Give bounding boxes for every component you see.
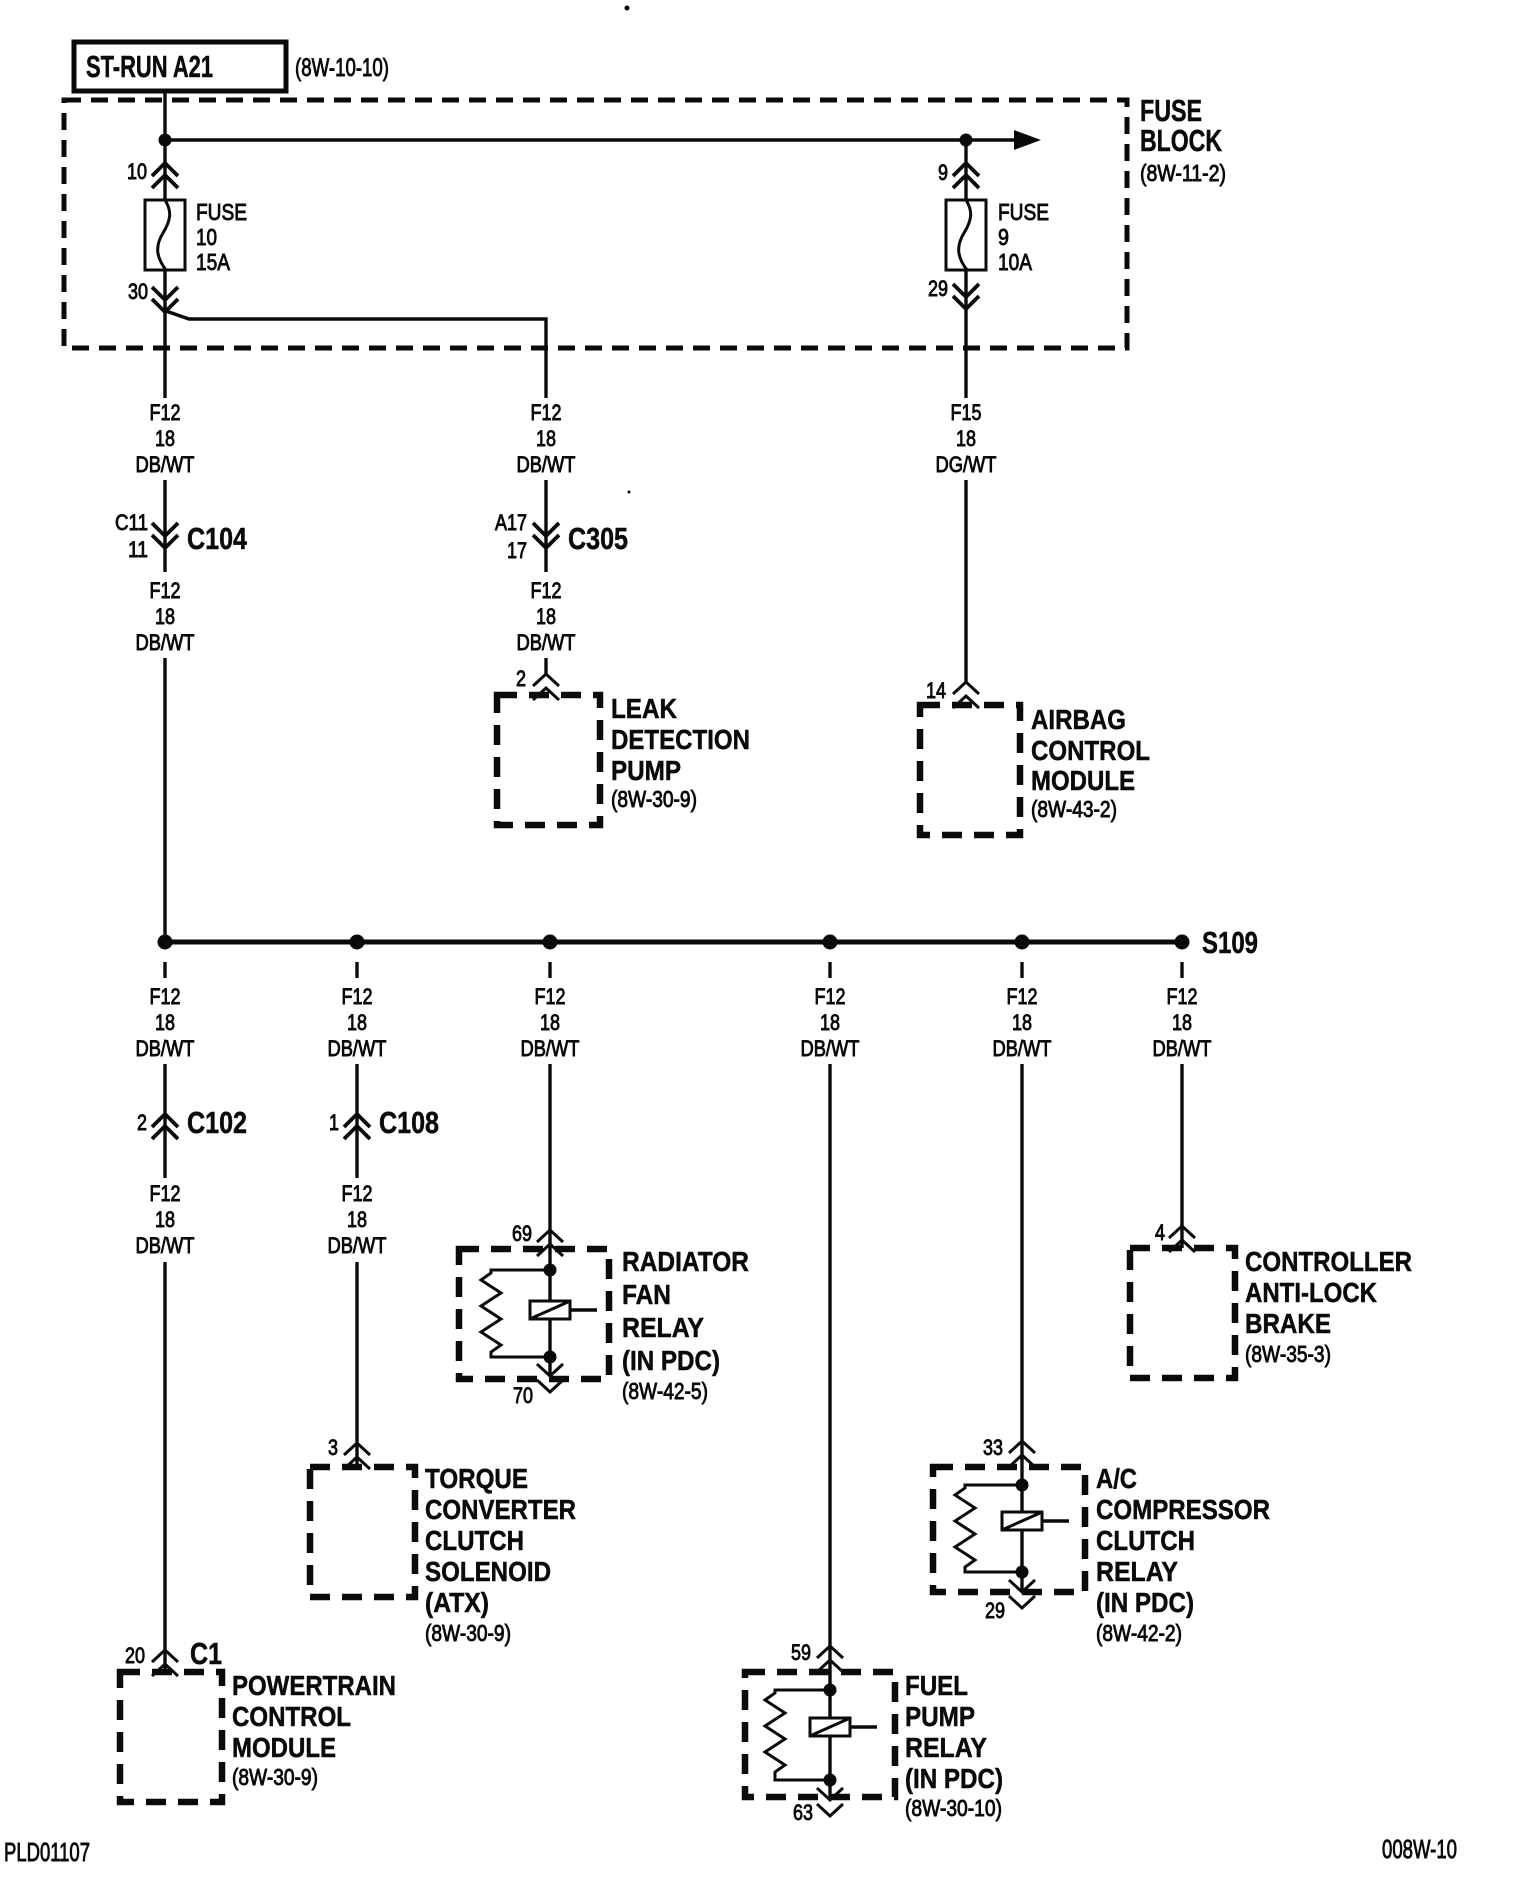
wire stub below splice node 6 [1180,962,1183,978]
svg-text:10: 10 [127,159,147,184]
junction node above fuse 9 [960,134,973,147]
fuse 10 15A [145,199,247,275]
wire node to fuse 10 [163,146,166,200]
svg-text:(8W-11-2): (8W-11-2) [1140,160,1226,186]
splice junction node 3 [543,935,558,950]
svg-text:4: 4 [1155,1220,1165,1245]
svg-text:(8W-30-10): (8W-30-10) [905,1795,1002,1821]
wire label F12 18 DB/WT (column 1) [136,984,195,1061]
svg-text:18: 18 [1012,1010,1032,1035]
svg-text:18: 18 [536,604,556,629]
svg-text:PLD01107: PLD01107 [4,1837,90,1867]
wire splice to C102 [163,1064,166,1178]
svg-text:F12: F12 [531,400,562,425]
svg-text:F12: F12 [150,400,181,425]
junction node top of radiator fan relay [544,1264,557,1277]
wire node to fuse 9 [964,146,967,200]
fuse block label [1140,93,1226,186]
wire fuse 9 down to airbag control module [964,480,967,684]
airbag control module [920,704,1150,835]
svg-text:F12: F12 [150,578,181,603]
svg-text:69: 69 [512,1221,532,1246]
svg-text:10A: 10A [998,249,1033,275]
relay coil wire segments [1020,1485,1023,1512]
connector C305 pins A17/17 [495,510,628,563]
junction node bottom of radiator fan relay [544,1351,557,1364]
svg-text:SOLENOID: SOLENOID [425,1556,551,1587]
svg-text:DB/WT: DB/WT [1153,1036,1212,1061]
pin 33 of A/C compressor clutch relay [983,1435,1035,1467]
svg-text:70: 70 [513,1383,533,1408]
svg-text:DB/WT: DB/WT [136,1233,195,1258]
wire label F15 18 DG/WT (right column) [936,400,997,477]
svg-text:9: 9 [938,160,948,185]
splice junction node 2 [350,935,365,950]
leak detection pump [497,693,750,825]
svg-text:F12: F12 [150,1181,181,1206]
fuse block boundary (dashed) [64,100,1127,348]
svg-text:DB/WT: DB/WT [801,1036,860,1061]
svg-text:18: 18 [540,1010,560,1035]
wire stub below splice node 4 [828,962,831,978]
svg-text:AIRBAG: AIRBAG [1031,704,1126,735]
svg-text:BRAKE: BRAKE [1245,1308,1331,1339]
splice junction node 1 [158,935,173,950]
svg-text:DB/WT: DB/WT [517,630,576,655]
wire splice to A/C compressor clutch relay [1020,1064,1023,1485]
wire splice to fuel pump relay [828,1064,831,1690]
pin 9 of fuse block [938,160,979,188]
pin 59 of fuel pump relay [791,1640,843,1672]
wire label F12 18 DB/WT (column 2) [328,984,387,1061]
svg-text:CLUTCH: CLUTCH [1096,1525,1195,1556]
svg-text:DB/WT: DB/WT [993,1036,1052,1061]
svg-text:30: 30 [128,279,148,304]
svg-text:33: 33 [983,1435,1003,1460]
wire label F12 18 DB/WT (column 5) [993,984,1052,1061]
connector C104 pins C11/11 [115,510,248,562]
svg-text:(IN PDC): (IN PDC) [905,1763,1003,1794]
svg-text:CONTROL: CONTROL [232,1701,351,1732]
net label box ST-RUN A21 [74,42,286,91]
svg-text:20: 20 [125,1643,145,1668]
radiator fan relay box [459,1249,609,1379]
svg-text:COMPRESSOR: COMPRESSOR [1096,1494,1270,1525]
relay coil wire segments [548,1270,551,1301]
speck [625,6,630,11]
wire left column to C104 [163,480,166,572]
wire from fuse 10 down through pin 30 [163,270,166,398]
pin 70 of radiator fan relay [513,1357,563,1408]
pin 2 of leak detection pump [516,666,559,700]
svg-text:F12: F12 [150,984,181,1009]
pin 14 of airbag control module [926,678,979,708]
svg-text:(ATX): (ATX) [425,1587,489,1618]
svg-text:18: 18 [155,604,175,629]
svg-text:DB/WT: DB/WT [136,1036,195,1061]
svg-text:DB/WT: DB/WT [517,452,576,477]
svg-text:(8W-30-9): (8W-30-9) [611,786,697,812]
relay coil of A/C compressor clutch relay [1002,1512,1069,1530]
svg-text:LEAK: LEAK [611,693,677,724]
connector C108 pin 1 [329,1105,439,1140]
svg-text:(8W-42-2): (8W-42-2) [1096,1620,1182,1646]
A/C compressor clutch relay box [933,1467,1085,1592]
pin 3 of torque converter clutch solenoid [328,1435,370,1469]
svg-text:DB/WT: DB/WT [136,452,195,477]
svg-text:C104: C104 [187,521,248,556]
wire label F12 18 DB/WT (left column upper) [136,400,195,477]
svg-text:CLUTCH: CLUTCH [425,1525,524,1556]
pin 30 of fuse block [128,279,178,312]
splice junction node 4 [823,935,838,950]
svg-text:DG/WT: DG/WT [936,452,997,477]
wire stub below splice node 5 [1020,962,1023,978]
svg-text:C11: C11 [115,510,148,535]
wire label F12 18 DB/WT (column 3) [521,984,580,1061]
svg-text:PUMP: PUMP [905,1701,975,1732]
svg-text:F12: F12 [1167,984,1198,1009]
svg-text:18: 18 [347,1010,367,1035]
svg-text:DB/WT: DB/WT [328,1036,387,1061]
svg-text:F12: F12 [342,1181,373,1206]
svg-text:PUMP: PUMP [611,755,681,786]
junction node bottom of fuel pump relay [824,1774,837,1787]
svg-text:C1: C1 [190,1636,222,1671]
svg-text:18: 18 [155,1010,175,1035]
wire middle column to C305 [544,480,547,572]
svg-text:FUSE: FUSE [998,199,1049,225]
wire splice to controller anti-lock brake [1180,1064,1183,1248]
splice S109 bus wire [165,940,1182,945]
svg-text:C108: C108 [379,1105,439,1140]
svg-text:2: 2 [137,1110,147,1135]
radiator fan relay labels [622,1246,749,1404]
svg-text:RADIATOR: RADIATOR [622,1246,749,1277]
svg-text:18: 18 [536,426,556,451]
svg-text:C305: C305 [568,521,628,556]
svg-text:RELAY: RELAY [905,1732,987,1763]
svg-text:MODULE: MODULE [232,1732,336,1763]
junction node above fuse 10 [159,134,172,147]
svg-text:ANTI-LOCK: ANTI-LOCK [1245,1277,1377,1308]
svg-text:11: 11 [128,537,148,562]
wire label F12 18 DB/WT (below C104) [136,578,195,655]
svg-text:POWERTRAIN: POWERTRAIN [232,1670,396,1701]
wire stub below splice node 3 [548,962,551,978]
resistor of fuel pump relay [765,1690,830,1780]
svg-text:3: 3 [328,1435,338,1460]
resistor of radiator fan relay [481,1270,550,1357]
svg-text:RELAY: RELAY [622,1312,704,1343]
svg-text:2: 2 [516,666,526,691]
svg-text:(8W-42-5): (8W-42-5) [622,1378,708,1404]
wire from fuse 9 down through pin 29 [964,270,967,398]
svg-text:A/C: A/C [1096,1463,1137,1494]
svg-text:10: 10 [196,224,217,250]
svg-text:DB/WT: DB/WT [328,1233,387,1258]
pin 69 of radiator fan relay [512,1221,563,1256]
svg-text:18: 18 [347,1207,367,1232]
svg-text:TORQUE: TORQUE [425,1463,528,1494]
junction node bottom of A/C relay [1016,1566,1029,1579]
svg-text:(8W-43-2): (8W-43-2) [1031,796,1117,822]
wire C305 to leak detection pump [544,658,547,676]
junction node top of fuel pump relay [824,1684,837,1697]
svg-text:ST-RUN A21: ST-RUN A21 [86,49,213,84]
fuel pump relay box [745,1672,895,1797]
svg-text:FUSE: FUSE [196,199,247,225]
svg-text:CONVERTER: CONVERTER [425,1494,576,1525]
wire from ST-RUN A21 into fuse block [163,92,166,140]
svg-text:F12: F12 [531,578,562,603]
splice junction node 6 [1175,935,1190,950]
pin 10 of fuse block [127,159,178,188]
arrow at end of feed wire [1014,130,1041,150]
svg-text:CONTROL: CONTROL [1031,735,1150,766]
wire C102 down to powertrain control module [163,1262,166,1672]
svg-text:18: 18 [956,426,976,451]
svg-text:S109: S109 [1202,925,1258,960]
wire stub below splice node 2 [355,962,358,978]
svg-text:63: 63 [793,1800,813,1825]
svg-text:18: 18 [820,1010,840,1035]
wire label F12 18 DB/WT (column 4) [801,984,860,1061]
pin 4 of controller anti-lock brake [1155,1220,1195,1252]
svg-text:F12: F12 [535,984,566,1009]
pin 63 of fuel pump relay [793,1780,843,1825]
svg-text:59: 59 [791,1640,811,1665]
svg-text:F15: F15 [951,400,982,425]
relay coil of fuel pump relay [810,1718,877,1736]
svg-text:DETECTION: DETECTION [611,724,750,755]
svg-text:FUEL: FUEL [905,1670,968,1701]
svg-text:(8W-10-10): (8W-10-10) [295,54,389,82]
wire label F12 18 DB/WT (below C102) [136,1181,195,1258]
svg-text:C102: C102 [187,1105,247,1140]
wire C108 down to torque converter clutch solenoid [355,1262,358,1467]
svg-text:18: 18 [155,426,175,451]
relay coil of radiator fan relay [530,1301,597,1319]
wire feed bus across fuse block [165,138,1018,141]
fuel pump relay labels [905,1670,1003,1821]
fuse 9 10A [946,199,1049,275]
svg-text:(8W-35-3): (8W-35-3) [1245,1341,1331,1367]
A/C compressor clutch relay labels [1096,1463,1270,1646]
svg-text:DB/WT: DB/WT [136,630,195,655]
wire label F12 18 DB/WT (middle column upper) [517,400,576,477]
svg-text:FAN: FAN [622,1279,671,1310]
svg-text:CONTROLLER: CONTROLLER [1245,1246,1412,1277]
relay coil wire segments [828,1690,831,1718]
svg-text:A17: A17 [495,510,527,535]
svg-text:DB/WT: DB/WT [521,1036,580,1061]
wire label F12 18 DB/WT (below C108) [328,1181,387,1258]
svg-text:(IN PDC): (IN PDC) [622,1345,720,1376]
svg-text:RELAY: RELAY [1096,1556,1178,1587]
svg-text:17: 17 [507,538,527,563]
svg-text:18: 18 [1172,1010,1192,1035]
svg-text:008W-10: 008W-10 [1382,1834,1457,1864]
svg-text:9: 9 [998,224,1009,250]
pin 29 of A/C compressor clutch relay [985,1572,1035,1623]
wire stub below splice node 1 [163,962,166,978]
pin 29 of fuse block [928,276,979,309]
svg-text:MODULE: MODULE [1031,765,1135,796]
svg-text:15A: 15A [196,249,231,275]
svg-text:14: 14 [926,678,946,703]
branch wire from pin 30 over to C305 column [166,311,546,398]
connector C102 pin 2 [137,1105,247,1140]
svg-text:BLOCK: BLOCK [1140,123,1222,158]
svg-text:F12: F12 [342,984,373,1009]
svg-text:(IN PDC): (IN PDC) [1096,1587,1194,1618]
pin 20 of powertrain control module, connector C1 [125,1636,222,1676]
splice junction node 5 [1015,935,1030,950]
wire label F12 18 DB/WT (column 6) [1153,984,1212,1061]
svg-text:F12: F12 [815,984,846,1009]
wire splice to radiator fan relay [548,1064,551,1270]
svg-text:(8W-30-9): (8W-30-9) [425,1620,511,1646]
wire splice to C108 [355,1064,358,1178]
torque converter clutch solenoid [310,1463,576,1646]
resistor of A/C compressor clutch relay [955,1485,1022,1572]
svg-text:1: 1 [329,1110,339,1135]
wire C104 down to splice S109 [163,658,166,942]
svg-text:(8W-30-9): (8W-30-9) [232,1764,318,1790]
junction node top of A/C relay [1016,1479,1029,1492]
wire label F12 18 DB/WT (below C305) [517,578,576,655]
powertrain control module [120,1670,396,1802]
svg-text:18: 18 [155,1207,175,1232]
svg-text:29: 29 [928,276,948,301]
controller anti-lock brake [1130,1246,1412,1378]
svg-text:29: 29 [985,1598,1005,1623]
svg-text:F12: F12 [1007,984,1038,1009]
